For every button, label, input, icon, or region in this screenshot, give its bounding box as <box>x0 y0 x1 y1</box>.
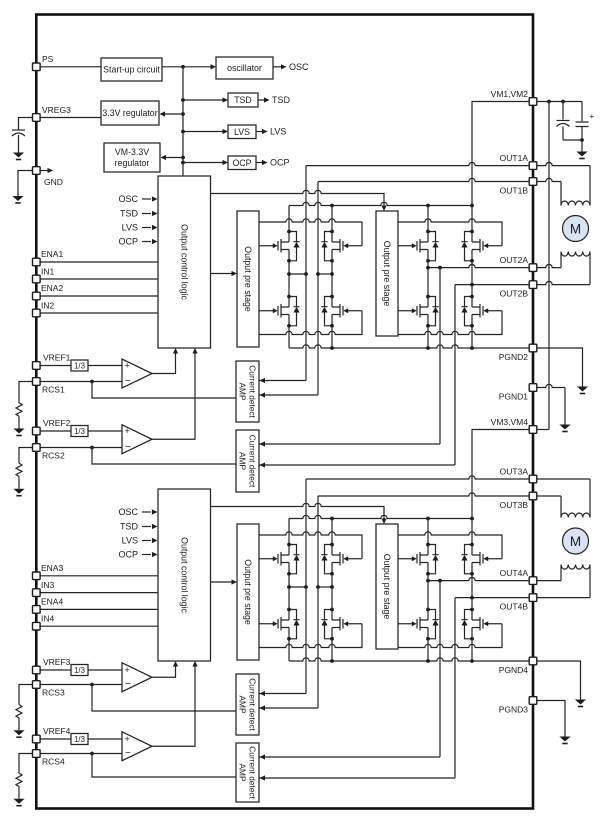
wire OUT2A sense drop <box>439 268 441 444</box>
pin OUT4A <box>500 568 537 584</box>
transistor Q12 high-side right <box>321 230 362 263</box>
node VM rail to VM pin <box>470 204 474 208</box>
wire B4 right column mid <box>471 574 473 610</box>
wire RCS3 sense resistor lead <box>19 685 36 705</box>
arrowhead OCP input ch12 <box>152 239 158 244</box>
wire B1 right column top <box>331 206 333 232</box>
transistor Q14 low-side right <box>321 295 362 328</box>
wire OUT3B to coil <box>560 496 562 518</box>
comparator A1 <box>122 359 152 388</box>
wire midpoint link B3 left <box>289 586 306 588</box>
svg-text:LVS: LVS <box>122 536 138 546</box>
svg-text:+: + <box>125 665 130 675</box>
svg-text:TSD: TSD <box>272 95 291 105</box>
svg-text:RCS3: RCS3 <box>42 688 65 698</box>
pin IN2 <box>33 301 55 317</box>
wire OUT4A to CD amp <box>259 756 440 758</box>
arrowhead into pre-stage ch2 top <box>381 206 386 212</box>
wire OUT4B net <box>455 597 533 599</box>
wire VM1,VM2 to caps <box>537 101 582 103</box>
comparator A4 <box>122 732 152 761</box>
node OUT4A midpoint <box>426 579 430 583</box>
wire OSC input ch12 <box>142 198 151 200</box>
wire gate drive Q24 <box>398 311 502 335</box>
node VM rail drain B3R <box>330 517 334 521</box>
wire B2 right column top <box>471 206 473 232</box>
svg-text:3.3V regulator: 3.3V regulator <box>102 108 157 118</box>
node midpoint B3R a <box>316 585 320 589</box>
arrowhead OSC input ch34 <box>152 509 158 514</box>
svg-text:VM3,VM4: VM3,VM4 <box>491 417 529 427</box>
pin PGND4 <box>499 657 537 675</box>
svg-text:IN2: IN2 <box>41 301 55 311</box>
svg-text:regulator: regulator <box>115 158 150 168</box>
node rail source B2L <box>426 346 430 350</box>
svg-text:Output pre stage: Output pre stage <box>382 241 392 307</box>
wire bus to VM-3.3V regulator <box>166 157 184 159</box>
inductor motor2 winding B <box>561 565 590 570</box>
svg-text:PS: PS <box>42 54 54 64</box>
wire divider to comparator ch4 <box>88 738 122 740</box>
wire divider to comparator ch1 <box>88 365 122 367</box>
wire divider to comparator ch3 <box>88 669 122 671</box>
wire gate drive Q22 <box>398 219 502 246</box>
wire PGND3 external <box>537 701 565 737</box>
arrowhead OCP input ch34 <box>152 552 158 557</box>
svg-text:Current detect: Current detect <box>248 435 258 488</box>
wire OUT3A net <box>306 476 533 694</box>
resistor R RCS4 <box>16 773 22 787</box>
wire RCS1 resistor to ground <box>18 416 20 428</box>
node VM rail to VM pin <box>470 517 474 521</box>
wire RCS2 sense resistor lead <box>19 448 36 464</box>
wire B2 left source to rail <box>427 326 429 348</box>
wire divider to comparator ch2 <box>88 430 122 432</box>
node RCS4 node <box>90 752 94 756</box>
svg-text:OUT1A: OUT1A <box>500 153 529 163</box>
arrowhead into pre-stage ch1 <box>232 271 238 276</box>
inductor motor1 winding A <box>561 201 590 206</box>
transistor Q31 high-side left <box>259 543 300 576</box>
capacitor C1 VREG3 decoupling <box>12 130 25 136</box>
svg-text:OUT3A: OUT3A <box>500 467 529 477</box>
wire OUT2A to coil <box>560 252 562 268</box>
wire B3 left source to rail <box>288 639 290 661</box>
arrowhead into OCP block <box>223 160 229 165</box>
wire bus to 3.3V regulator <box>165 113 184 115</box>
arrowhead CD amp ch1 in B <box>260 392 266 397</box>
svg-text:OSC: OSC <box>289 62 309 72</box>
ground RCS4 resistor <box>13 799 24 807</box>
svg-text:OSC: OSC <box>118 507 138 517</box>
wire gate drive Q42 <box>398 532 502 559</box>
svg-text:OUT2B: OUT2B <box>500 289 529 299</box>
svg-text:VM-3.3V: VM-3.3V <box>115 147 149 157</box>
wire LVS input ch12 <box>142 227 151 229</box>
node VM rail drain B2L <box>426 204 430 208</box>
wire OCP input ch12 <box>142 241 151 243</box>
pin OUT2B <box>500 281 537 299</box>
node bus tap VM reg <box>181 156 185 160</box>
svg-text:−: − <box>125 376 131 387</box>
wire comparator ch1 output <box>152 350 176 374</box>
inductor motor1 winding B <box>561 252 590 257</box>
node VM rail drain B4L <box>426 517 430 521</box>
wire B2 right source to rail <box>471 326 473 348</box>
wire VREF2 to divider <box>40 430 71 432</box>
svg-text:1/3: 1/3 <box>74 735 85 744</box>
ground VM caps <box>576 152 587 160</box>
wire VM3,VM4 link <box>537 429 549 431</box>
wire CD amp ch3 output to RCS3 <box>92 685 236 712</box>
node VM rail drain B1R <box>330 204 334 208</box>
output pre stage ch2 <box>376 211 398 336</box>
output control logic U12 <box>158 176 211 348</box>
svg-text:OUT4B: OUT4B <box>500 602 529 612</box>
arrowhead comp ch4 into logic <box>192 661 197 667</box>
wire ctrl drop ch4 <box>383 519 385 523</box>
wire RCS3 to comparator <box>40 684 122 686</box>
arrowhead GND substrate <box>48 168 54 173</box>
transistor Q41 high-side left <box>398 543 439 576</box>
pin OUT2A <box>500 255 537 271</box>
wire OUT2B sense drop <box>454 285 456 465</box>
wire OUT1B to CD amp <box>259 394 318 396</box>
arrowhead LVS input ch12 <box>152 225 158 230</box>
svg-text:M: M <box>570 221 581 236</box>
wire drain lead B3 left-top <box>288 519 290 545</box>
svg-text:VREG3: VREG3 <box>42 105 71 115</box>
wire bus to LVS block <box>183 131 223 133</box>
wire comparator ch3 output <box>152 663 176 677</box>
pin ENA4 <box>33 596 64 613</box>
svg-text:−: − <box>125 748 131 759</box>
wire OUT1A to coil <box>589 166 591 206</box>
arrowhead into LVS block <box>223 129 229 134</box>
svg-text:oscillator: oscillator <box>227 63 262 73</box>
ground PGND2 <box>577 387 588 395</box>
wire LVS output <box>256 131 262 133</box>
wire IN1 to logic <box>40 278 158 280</box>
wire LVS input ch34 <box>142 540 151 542</box>
wire OUT3B to CD amp <box>259 707 318 709</box>
wire CD amp ch1 output to RCS1 <box>92 382 236 399</box>
arrowhead CD amp ch2 in A <box>260 441 266 446</box>
pin VREF1 <box>33 353 71 370</box>
node midpoint B3L a <box>287 585 291 589</box>
wire TSD output <box>258 99 264 101</box>
wire OUT1B net <box>318 178 533 395</box>
svg-text:AMP: AMP <box>238 452 248 470</box>
wire C ext1 bottom lead <box>562 127 564 141</box>
arrowhead OCP out <box>262 160 268 165</box>
wire gate drive Q44 <box>398 624 502 648</box>
wire VREF3 to divider <box>40 669 71 671</box>
pin VM1,VM2 <box>491 89 537 105</box>
pin VREF4 <box>33 726 71 743</box>
wire OSC input ch34 <box>142 511 151 513</box>
wire midpoint link B3 right <box>318 586 332 588</box>
pin IN1 <box>33 267 55 283</box>
svg-text:OCP: OCP <box>270 158 290 168</box>
transistor Q32 high-side right <box>321 543 362 576</box>
wire OCP input ch34 <box>142 554 151 556</box>
arrowhead into pre-stage ch3 <box>232 579 238 584</box>
svg-text:PGND2: PGND2 <box>499 352 529 362</box>
1/3 divider ch4 <box>71 734 88 745</box>
svg-text:AMP: AMP <box>238 383 248 401</box>
node rail source B1R <box>330 346 334 350</box>
pin PGND2 <box>499 344 537 362</box>
pin VM3,VM4 <box>491 417 537 433</box>
wire OUT2A to CD amp <box>259 443 440 445</box>
wire VM rail ch12 <box>289 202 472 205</box>
wire VM supply vertical <box>548 102 550 430</box>
node bus tap start-up <box>181 65 185 69</box>
wire RCS4 sense resistor lead <box>19 754 36 774</box>
wire GND pin to ground <box>18 171 36 197</box>
transistor Q11 high-side left <box>259 230 300 263</box>
svg-text:TSD: TSD <box>120 522 139 532</box>
arrowhead into TSD block <box>223 97 229 102</box>
pin VREF3 <box>33 657 71 674</box>
wire cap common <box>563 139 582 141</box>
node midpoint B1R b <box>330 272 334 276</box>
pin RCS3 <box>33 681 65 698</box>
wire VM3,VM4 feed <box>472 430 529 519</box>
pin OUT3A <box>500 467 537 483</box>
output pre stage ch4 <box>376 524 398 649</box>
svg-text:RCS4: RCS4 <box>42 757 65 767</box>
wire B3 left column mid <box>288 574 290 610</box>
svg-text:−: − <box>125 442 131 453</box>
wire OUT4A net <box>428 577 533 580</box>
pin PS <box>33 54 54 71</box>
wire gate drive Q12 <box>259 219 362 246</box>
current detect amp ch1 <box>236 361 259 422</box>
motor M2 <box>563 528 589 554</box>
OCP block <box>228 156 256 170</box>
pin RCS4 <box>33 750 65 767</box>
ground RCS1 resistor <box>13 429 24 437</box>
wire OUT4A sense drop <box>439 581 441 757</box>
wire TSD input ch12 <box>142 213 151 215</box>
pin OUT3B <box>500 492 537 510</box>
wire RCS2 to comparator <box>40 447 122 449</box>
arrowhead TSD input ch12 <box>152 211 158 216</box>
svg-text:1/3: 1/3 <box>74 362 85 371</box>
node bus tap 3.3V reg <box>181 112 185 116</box>
VM-3.3V regulator block <box>104 143 160 172</box>
wire RCS2 resistor to ground <box>18 477 20 489</box>
comparator A2 <box>122 425 152 454</box>
transistor Q44 low-side right <box>461 608 502 641</box>
ground PGND1 <box>559 425 570 433</box>
svg-text:Output pre stage: Output pre stage <box>243 559 253 625</box>
arrowhead into VM-3.3V regulator <box>161 155 167 160</box>
wire OUT3A to coil <box>589 479 591 518</box>
node bus tap TSD <box>181 98 185 102</box>
transistor Q43 low-side left <box>398 608 439 641</box>
arrowhead comp ch1 into logic <box>173 348 178 354</box>
svg-text:VREF1: VREF1 <box>43 353 71 363</box>
wire logic to pre-stage ch4 <box>211 503 385 518</box>
svg-text:1/3: 1/3 <box>74 666 85 675</box>
ground VREG3 cap <box>13 153 24 161</box>
wire B4 right source to rail <box>471 639 473 661</box>
wire PS pin to start-up circuit <box>40 66 101 68</box>
node midpoint B3R b <box>330 585 334 589</box>
wire B2 left column mid <box>427 261 429 297</box>
wire B3 right column top <box>331 519 333 545</box>
node midpoint B1L b <box>304 272 308 276</box>
output control logic U34 <box>158 489 211 661</box>
pin PGND3 <box>499 697 537 715</box>
pin OUT4B <box>500 594 537 612</box>
ground PGND4 <box>575 700 586 708</box>
wire RCS4 resistor to ground <box>18 787 20 799</box>
arrowhead into 3.3V regulator <box>160 111 166 116</box>
svg-text:OUT3B: OUT3B <box>500 500 529 510</box>
svg-text:ENA1: ENA1 <box>41 249 63 259</box>
svg-text:VREF4: VREF4 <box>43 726 71 736</box>
pin IN3 <box>33 580 55 596</box>
svg-text:AMP: AMP <box>238 764 248 782</box>
pin VREG3 <box>33 105 72 121</box>
pin RCS1 <box>33 378 65 395</box>
svg-text:ENA4: ENA4 <box>41 596 63 606</box>
wire OUT2B net <box>455 284 533 286</box>
pin ENA1 <box>33 249 64 266</box>
wire IN4 to logic <box>40 625 158 627</box>
svg-text:IN1: IN1 <box>41 267 55 277</box>
svg-text:OUT4A: OUT4A <box>500 568 529 578</box>
svg-text:Current detect: Current detect <box>248 365 258 418</box>
LVS block <box>228 125 256 139</box>
arrowhead comp ch3 into logic <box>173 661 178 667</box>
svg-text:OCP: OCP <box>118 550 138 560</box>
wire ENA3 to logic <box>40 575 158 577</box>
wire comparator ch2 output <box>152 350 195 439</box>
wire comparator ch4 output <box>152 663 195 746</box>
pin PGND1 <box>499 384 537 402</box>
wire logic to pre-stage ch3 <box>211 581 232 583</box>
arrowhead CD amp ch4 in B <box>260 775 266 780</box>
wire CD amp ch4 output to RCS4 <box>92 754 236 778</box>
wire RCS1 sense resistor lead <box>19 382 36 403</box>
svg-text:RCS2: RCS2 <box>42 451 65 461</box>
TSD block <box>228 93 258 107</box>
svg-text:VREF2: VREF2 <box>43 418 71 428</box>
svg-text:Output pre stage: Output pre stage <box>382 554 392 620</box>
transistor Q42 high-side right <box>461 543 502 576</box>
transistor Q23 low-side left <box>398 295 439 328</box>
wire VM1,VM2 feed <box>472 102 529 206</box>
wire C ext2 bottom lead <box>581 127 583 141</box>
node midpoint B3L b <box>304 585 308 589</box>
wire ctrl drop ch2 <box>383 206 385 210</box>
svg-text:TSD: TSD <box>120 209 139 219</box>
resistor R RCS3 <box>16 705 22 719</box>
comparator A3 <box>122 663 152 692</box>
wire VM rail ch34 <box>289 515 472 518</box>
pin OUT1A <box>500 153 537 169</box>
svg-text:VM1,VM2: VM1,VM2 <box>491 89 529 99</box>
node bus tap LVS <box>181 130 185 134</box>
pin ENA3 <box>33 563 64 580</box>
svg-text:Output control logic: Output control logic <box>179 537 189 613</box>
wire RCS4 to comparator <box>40 753 122 755</box>
wire OCP output <box>256 162 262 164</box>
wire B3 right column mid <box>331 574 333 610</box>
svg-text:GND: GND <box>44 177 63 187</box>
wire PGND1 drop <box>564 388 566 425</box>
wire C ext2 top lead <box>581 102 583 122</box>
wire gate drive Q32 <box>259 532 362 559</box>
arrowhead comp ch2 into logic <box>192 348 197 354</box>
ground PGND3 <box>559 737 570 745</box>
svg-text:RCS1: RCS1 <box>42 385 65 395</box>
wire OUT3B net <box>318 493 533 708</box>
wire OUT1B to coil <box>560 182 562 206</box>
wire VREG3 cap to ground <box>18 135 20 153</box>
wire B1 left source to rail <box>288 326 290 348</box>
wire logic to pre-stage ch2 <box>211 190 385 205</box>
1/3 divider ch2 <box>71 426 88 437</box>
arrowhead LVS input ch34 <box>152 538 158 543</box>
svg-text:OCP: OCP <box>118 237 138 247</box>
wire B3 right source to rail <box>331 639 333 661</box>
output pre stage ch1 <box>237 211 259 347</box>
oscillator block <box>216 57 273 79</box>
node OUT2A midpoint <box>426 266 430 270</box>
inductor motor2 winding A <box>561 513 590 518</box>
ground RCS3 resistor <box>13 730 24 738</box>
wire OUT2B external <box>537 281 590 284</box>
capacitor C2 VM ceramic <box>557 121 570 127</box>
wire GND substrate arrow <box>41 170 49 172</box>
node midpoint B1R a <box>316 272 320 276</box>
wire RCS1 to comparator <box>40 381 122 383</box>
svg-text:M: M <box>570 534 581 549</box>
svg-text:VREF3: VREF3 <box>43 657 71 667</box>
svg-text:Start-up circuit: Start-up circuit <box>103 65 160 75</box>
node RCS3 node <box>90 683 94 687</box>
arrowhead CD amp ch2 in B <box>260 462 266 467</box>
capacitor C3 VM electrolytic <box>576 112 595 127</box>
arrowhead LVS out <box>262 129 268 134</box>
wire C ext1 top lead <box>562 102 564 120</box>
wire OUT4B sense drop <box>454 598 456 778</box>
node OUT2A branch <box>438 266 442 270</box>
svg-text:−: − <box>125 679 131 690</box>
svg-text:OCP: OCP <box>232 158 251 168</box>
arrowhead TSD out <box>264 97 270 102</box>
current detect amp ch2 <box>236 430 259 492</box>
svg-text:+: + <box>125 734 130 744</box>
node rail source B2R <box>470 346 474 350</box>
output pre stage ch3 <box>237 524 259 660</box>
arrowhead into oscillator <box>211 64 217 69</box>
current detect amp ch4 <box>236 743 259 802</box>
node rail source B4R <box>470 659 474 663</box>
svg-text:Output pre stage: Output pre stage <box>243 246 253 312</box>
arrowhead CD amp ch4 in A <box>260 754 266 759</box>
node RCS2 node <box>90 446 94 450</box>
pin IN4 <box>33 614 55 630</box>
current detect amp ch3 <box>236 674 259 735</box>
wire drain lead B1 left-top <box>288 206 290 232</box>
